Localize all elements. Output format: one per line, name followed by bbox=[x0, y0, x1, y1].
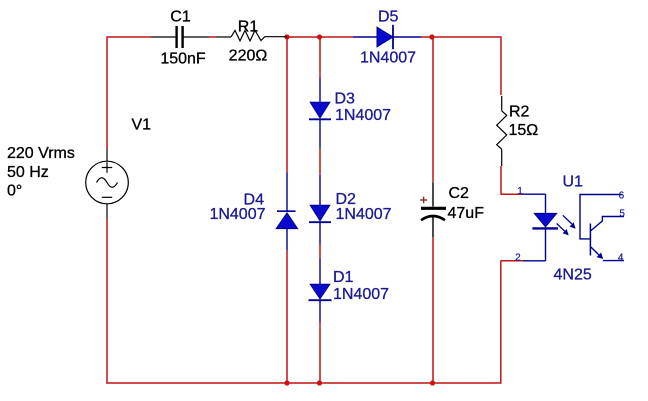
svg-text:1N4007: 1N4007 bbox=[333, 286, 389, 303]
svg-text:C2: C2 bbox=[449, 185, 470, 202]
svg-text:D1: D1 bbox=[333, 269, 354, 286]
emitter with arrow to pin 4 bbox=[591, 247, 600, 256]
svg-text:C1: C1 bbox=[170, 9, 191, 26]
wire C2 branch lower bbox=[432, 237, 434, 383]
svg-text:47uF: 47uF bbox=[448, 205, 485, 222]
svg-text:1N4007: 1N4007 bbox=[336, 206, 392, 223]
capacitor C1 bbox=[151, 26, 209, 48]
diode D4 bbox=[276, 173, 297, 251]
svg-text:2: 2 bbox=[515, 252, 521, 263]
phototransistor bar bbox=[589, 224, 591, 256]
wire top rail middle (R1 to D5) bbox=[287, 36, 353, 38]
wire top rail right (D5 to corner) bbox=[421, 36, 501, 38]
wire C2 branch upper bbox=[432, 36, 434, 182]
pin 6 (base) lead bbox=[580, 195, 622, 239]
junction node bottom A bbox=[284, 380, 289, 385]
wire between C1 and R1 bbox=[209, 36, 216, 38]
wire opto pin2 down bbox=[500, 261, 502, 383]
wire D1 to bottom bbox=[319, 322, 321, 383]
wire down to R2 bbox=[500, 36, 502, 95]
collector lead to pin 5 bbox=[591, 217, 624, 231]
light arrow 1 bbox=[563, 215, 572, 224]
svg-text:1N4007: 1N4007 bbox=[209, 206, 265, 223]
polarity plus of C2 bbox=[420, 197, 427, 204]
svg-text:50 Hz: 50 Hz bbox=[7, 164, 49, 181]
junction node bottom C bbox=[430, 380, 435, 385]
junction node top B bbox=[317, 34, 322, 39]
svg-text:1: 1 bbox=[517, 186, 523, 197]
wire D4 branch lower bbox=[286, 250, 288, 383]
svg-text:15Ω: 15Ω bbox=[509, 122, 539, 139]
light arrow 2 bbox=[557, 224, 565, 232]
svg-text:D3: D3 bbox=[335, 91, 356, 108]
capacitor C2 bbox=[420, 182, 446, 237]
wire out of pin 2 bbox=[501, 260, 524, 262]
resistor R2 bbox=[497, 96, 507, 166]
wire D4 branch upper bbox=[286, 36, 288, 172]
svg-text:220Ω: 220Ω bbox=[229, 48, 268, 65]
AC source V1 bbox=[86, 148, 129, 219]
svg-text:4: 4 bbox=[618, 253, 624, 264]
pin 1 lead bbox=[522, 193, 546, 195]
svg-text:1N4007: 1N4007 bbox=[335, 107, 391, 124]
wire left rail lower bbox=[106, 219, 108, 384]
diode D3 bbox=[309, 78, 331, 149]
junction node bottom B bbox=[317, 380, 322, 385]
wire left rail upper bbox=[106, 36, 108, 148]
LED of U1 bbox=[545, 194, 547, 213]
svg-text:0°: 0° bbox=[7, 183, 22, 200]
svg-text:R1: R1 bbox=[238, 19, 259, 36]
svg-text:D5: D5 bbox=[378, 9, 399, 26]
svg-text:4N25: 4N25 bbox=[554, 267, 592, 284]
wire bottom rail bbox=[106, 382, 501, 384]
resistor R1 bbox=[216, 30, 287, 41]
svg-text:150nF: 150nF bbox=[160, 51, 206, 68]
svg-text:V1: V1 bbox=[132, 117, 152, 134]
pin 2 lead bbox=[523, 260, 546, 262]
wire diode-chain top bbox=[319, 36, 321, 78]
junction node top C bbox=[429, 34, 434, 39]
junction node top A bbox=[284, 34, 289, 39]
diode D1 bbox=[309, 258, 332, 322]
diode D2 bbox=[309, 175, 331, 245]
wire top rail left (V1 to C1) bbox=[107, 36, 151, 38]
wire D3-D2 bbox=[319, 149, 321, 175]
svg-text:R2: R2 bbox=[509, 104, 530, 121]
diode D5 bbox=[353, 25, 421, 49]
svg-text:1N4007: 1N4007 bbox=[360, 50, 416, 67]
svg-text:6: 6 bbox=[619, 190, 625, 201]
svg-text:5: 5 bbox=[619, 208, 625, 219]
svg-text:220 Vrms: 220 Vrms bbox=[7, 145, 75, 162]
wire into pin 1 bbox=[501, 193, 523, 195]
wire R2 to opto pin1 bbox=[500, 166, 502, 194]
optocoupler U1 bbox=[501, 186, 626, 264]
wire D2-D1 bbox=[319, 245, 321, 259]
svg-text:U1: U1 bbox=[563, 174, 584, 191]
